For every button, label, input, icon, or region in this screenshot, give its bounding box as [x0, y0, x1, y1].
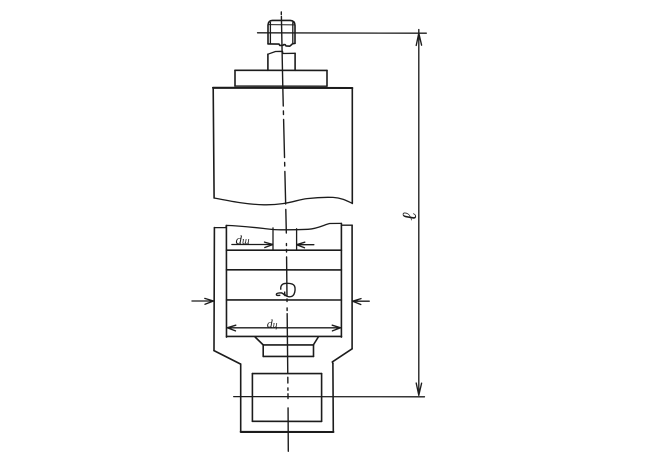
upper flange [235, 70, 327, 86]
svg-text:dш: dш [236, 232, 251, 247]
svg-text:dц: dц [267, 316, 278, 330]
gasket [263, 345, 313, 357]
seat trapezoid [255, 337, 318, 345]
shell chamfer left [214, 351, 241, 365]
shell inner bottom line [227, 335, 342, 337]
dim dsh extension line left [272, 228, 274, 250]
terminal nut [268, 20, 295, 46]
hex width arrow left [192, 298, 214, 304]
center axis [281, 12, 288, 451]
dim dsh extension line right [296, 229, 298, 250]
shell hex face edges [226, 223, 341, 337]
thread bore [252, 374, 321, 422]
extension line top [258, 32, 427, 34]
dim l line [416, 30, 421, 396]
shell hex top break line [214, 223, 352, 229]
shell hex outer silhouette [214, 225, 352, 350]
sealing ring line 2 [226, 269, 341, 271]
label D script [276, 283, 295, 296]
hex width arrow right [353, 299, 370, 305]
shell chamfer right [332, 349, 352, 364]
sealing ring line 1 [226, 249, 341, 251]
thread section [241, 363, 334, 432]
svg-text:ℓ: ℓ [399, 212, 421, 221]
dim dc line [227, 325, 340, 331]
insulator cylinder [213, 88, 352, 204]
dim dsh arrow left [232, 242, 273, 247]
sealing ring line 3 [227, 299, 342, 301]
extension line bottom [234, 396, 425, 398]
terminal stud [268, 51, 295, 70]
insulator break line [214, 197, 352, 205]
dim dsh arrow right [297, 242, 314, 248]
